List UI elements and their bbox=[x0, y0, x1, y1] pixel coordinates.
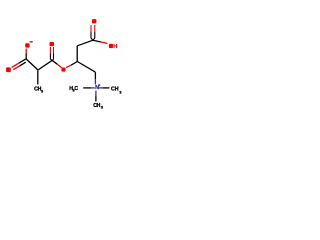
svg-text:H: H bbox=[115, 86, 119, 92]
wire double bond C1=O lower line red half bbox=[13, 66, 19, 70]
wire double bond Ccarb=O left line red half bbox=[90, 25, 92, 32]
wire bond carboxyl C to OH (red half) bbox=[101, 42, 107, 44]
wire bond carnitine CH to CH2b bbox=[77, 62, 95, 73]
wire bond central CH to ester carbonyl C bbox=[38, 60, 52, 70]
svg-text:N: N bbox=[95, 85, 99, 91]
label O (ester carbonyl oxygen, top middle) bbox=[50, 42, 55, 46]
label OH (carboxylic acid) bbox=[109, 44, 117, 50]
node carboxyl C vertex bbox=[91, 38, 95, 40]
wire double bond Cester=O left line red half bbox=[49, 47, 51, 53]
wire bond carboxyl C to OH (black half) bbox=[93, 40, 101, 42]
wire bond N to bottom methyl (black half) bbox=[95, 96, 97, 101]
wire bond O- to C1 (red half) bbox=[25, 49, 27, 54]
wire double bond C1=O upper line black half bbox=[19, 59, 26, 63]
wire double bond Ccarb=O right line black half bbox=[94, 32, 96, 39]
label O (ester bridging oxygen) bbox=[61, 68, 65, 72]
wire double bond Ccarb=O right line red half bbox=[94, 25, 96, 32]
label CH3 (methyl on malonate) bbox=[34, 87, 43, 94]
wire bond N to right methyl (black half) bbox=[103, 87, 110, 89]
label O (left carbonyl oxygen) bbox=[6, 67, 11, 72]
wire bond N to bottom methyl (blue half) bbox=[95, 91, 97, 96]
wire bond O- to C1 (black half) bbox=[25, 54, 27, 60]
wire bond ester O to carnitine CH (black half) bbox=[71, 62, 77, 66]
label CH3 (right N-methyl) bbox=[111, 86, 122, 94]
wire double bond C1=O upper line red half bbox=[12, 63, 19, 67]
wire bond ester C to ester O (black half) bbox=[52, 60, 57, 64]
wire bond N to left methyl (blue half) bbox=[91, 87, 95, 89]
wire double bond Cester=O right line red half bbox=[53, 47, 55, 53]
wire bond central CH to CH3 bbox=[37, 70, 39, 84]
wire bond CH2b to N (blue half) bbox=[94, 79, 96, 84]
label CH3 (bottom N-methyl) bbox=[93, 103, 103, 110]
wire bond ester C to ester O (red half) bbox=[57, 64, 61, 67]
wire bond ester O to carnitine CH (red half) bbox=[66, 65, 71, 67]
wire bond CH2b to N (black half) bbox=[94, 72, 96, 79]
node ester carbonyl C vertex bbox=[50, 59, 53, 61]
svg-text:C: C bbox=[74, 86, 78, 92]
label O- (carboxylate oxygen top-left) bbox=[25, 41, 33, 48]
label H3C (left N-methyl) bbox=[69, 86, 78, 93]
wire bond carnitine CH up to CH2 bbox=[76, 46, 78, 62]
svg-text:H: H bbox=[113, 44, 117, 50]
svg-text:3: 3 bbox=[41, 89, 43, 93]
wire double bond Ccarb=O left line black half bbox=[90, 32, 92, 39]
wire double bond C1=O lower line black half bbox=[20, 62, 26, 66]
label O (carboxyl oxygen top right) bbox=[92, 19, 96, 23]
wire double bond Cester=O right line black half bbox=[53, 53, 55, 59]
wire bond CH2 to carboxyl C bbox=[77, 40, 93, 46]
wire double bond Cester=O left line black half bbox=[49, 53, 51, 59]
wire bond N to left methyl (black half) bbox=[83, 87, 91, 89]
wire bond N to right methyl (blue half) bbox=[99, 87, 103, 89]
svg-text:3: 3 bbox=[119, 91, 121, 95]
wire bond C1 to central CH bbox=[26, 59, 38, 70]
svg-text:3: 3 bbox=[101, 105, 103, 109]
label N+ (quaternary nitrogen) bbox=[95, 84, 100, 91]
